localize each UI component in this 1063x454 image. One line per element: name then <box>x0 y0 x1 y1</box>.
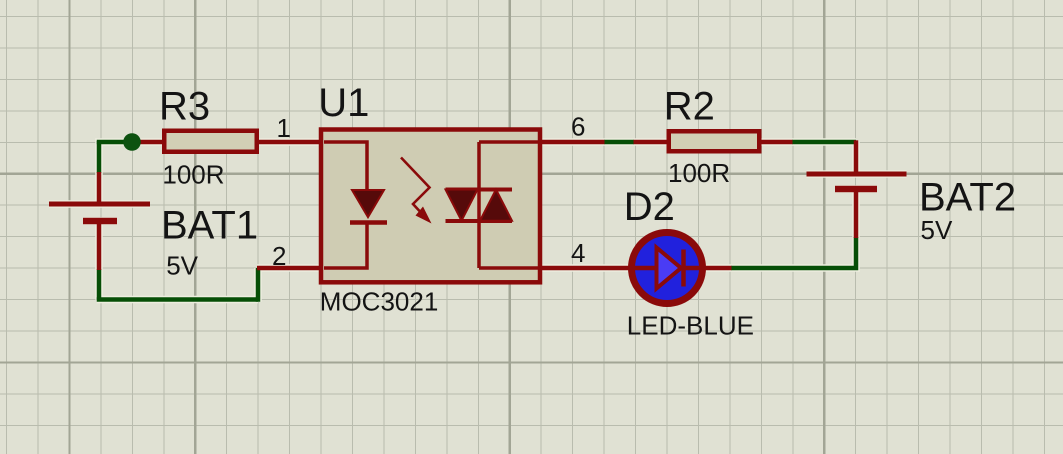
U1 internal LED triangle <box>352 190 384 217</box>
U1 internal light arrow head <box>416 207 432 224</box>
svg-text:1: 1 <box>277 113 291 143</box>
U1 internal triac top bar <box>446 188 513 192</box>
U1 internal triac top wire to pin 6 <box>479 140 539 144</box>
battery BAT1 bottom plate <box>83 218 117 225</box>
pin BAT1 bottom (red) <box>97 220 102 270</box>
pin D2 right (red) <box>705 266 732 271</box>
svg-text:D2: D2 <box>624 185 675 229</box>
wire green between U1 pin 6 and resistor R2 <box>604 140 634 145</box>
pin R2 right (red) <box>761 140 793 145</box>
pin U1 pin 6 (red) <box>541 140 605 145</box>
pin R2 left (red) <box>634 140 668 145</box>
wire green vertical up to U1 pin 2 <box>256 268 261 302</box>
wire green R2 to battery BAT2 <box>792 140 856 145</box>
resistor R3 <box>164 131 257 152</box>
svg-text:U1: U1 <box>318 81 369 125</box>
U1 internal light arrow <box>401 158 430 218</box>
wire net green left top: battery BAT1 to junction <box>99 142 132 144</box>
pin U1 pin 4 to LED D2 (red) <box>541 266 629 271</box>
wire BAT1 bottom vertical green <box>97 269 102 300</box>
svg-text:6: 6 <box>571 112 585 142</box>
U1 internal LED cathode bar <box>350 220 387 225</box>
wire BAT1 top vertical green <box>97 141 102 173</box>
svg-text:2: 2 <box>272 241 286 271</box>
U1 internal triac bottom wire to pin 4 <box>479 266 539 270</box>
svg-text:LED-BLUE: LED-BLUE <box>627 310 754 340</box>
U1 internal LED cathode wire <box>324 225 367 269</box>
junction node dot <box>123 133 141 151</box>
wire bottom left green horizontal <box>97 297 258 302</box>
svg-text:R2: R2 <box>664 85 715 129</box>
LED D2 triangle <box>657 248 682 289</box>
U1 internal triac bottom bar <box>446 219 513 223</box>
svg-text:BAT1: BAT1 <box>161 204 258 248</box>
svg-text:MOC3021: MOC3021 <box>320 286 439 316</box>
battery BAT2 bottom plate <box>835 186 877 193</box>
svg-text:R3: R3 <box>159 85 210 129</box>
U1 internal triac vertical wire <box>477 142 481 268</box>
LED D2 cathode bar <box>681 250 686 287</box>
U1 internal triac right triangle <box>480 190 512 221</box>
pin R3 right to U1 pin 1 (red) <box>258 140 322 145</box>
wire halo (decorative anti-alias glow) <box>49 140 907 301</box>
svg-text:4: 4 <box>571 238 585 268</box>
LED D2 circle <box>632 233 703 304</box>
pin U1 pin 2 (red) <box>257 266 322 271</box>
optocoupler U1 <box>321 130 540 283</box>
svg-text:BAT2: BAT2 <box>919 176 1016 220</box>
pin BAT2 bottom (red) <box>854 188 859 238</box>
U1 internal LED anode wire <box>324 142 367 190</box>
pin BAT1 top (red) <box>97 172 102 204</box>
wire green BAT2 bottom vertical <box>731 237 856 268</box>
svg-text:5V: 5V <box>166 251 198 281</box>
LED D2 internal wire <box>632 266 702 271</box>
pin BAT2 top (red) <box>854 140 859 174</box>
battery BAT1 top plate <box>49 202 150 207</box>
svg-text:100R: 100R <box>162 159 224 189</box>
svg-text:5V: 5V <box>921 215 953 245</box>
battery BAT2 top plate <box>807 172 907 177</box>
resistor R2 <box>669 131 760 151</box>
U1 internal triac left triangle <box>446 190 478 221</box>
svg-text:100R: 100R <box>668 158 730 188</box>
pin R3 left (red) <box>131 140 163 145</box>
